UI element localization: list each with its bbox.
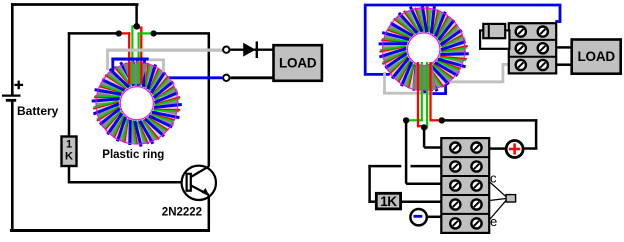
svg-text:Plastic ring: Plastic ring <box>102 149 164 161</box>
svg-text:LOAD: LOAD <box>279 55 317 70</box>
svg-text:c: c <box>490 170 497 185</box>
svg-text:e: e <box>490 214 497 229</box>
svg-text:1K: 1K <box>380 194 397 209</box>
svg-text:K: K <box>65 151 73 163</box>
svg-text:2N2222: 2N2222 <box>162 206 202 218</box>
svg-text:1: 1 <box>66 139 72 151</box>
svg-text:LOAD: LOAD <box>577 49 615 64</box>
svg-text:Battery: Battery <box>17 104 59 118</box>
